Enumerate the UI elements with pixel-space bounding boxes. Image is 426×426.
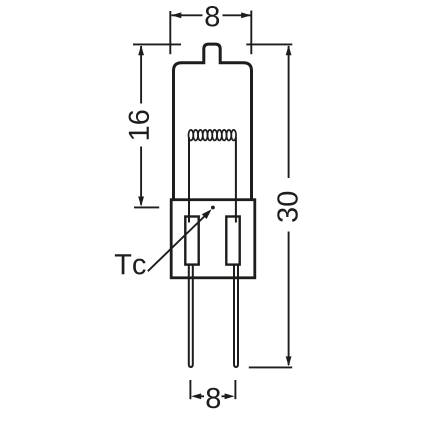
- dimension 30: line upper segment: [288, 46, 290, 178]
- lamp capsule outline: [174, 44, 252, 200]
- dimension 30: line lower segment: [288, 232, 290, 366]
- dimension top 8: extension line right: [250, 11, 252, 55]
- dimension top 8: label: [206, 6, 220, 27]
- dimension 16: label: [129, 110, 150, 139]
- dimension 16: arrowhead down: [138, 197, 144, 207]
- dimension top 8: arrowhead right: [241, 12, 251, 18]
- Tc measuring point dot: [211, 206, 215, 210]
- dimension bottom 8: line left stub: [200, 395, 204, 397]
- dimension 16: top reference tick: [133, 43, 181, 45]
- dimension top 8: arrowhead left: [171, 12, 181, 18]
- pin holder left: [185, 217, 198, 265]
- dimension bottom 8: extension line left: [189, 380, 191, 399]
- dimension bottom 8: label: [207, 388, 221, 409]
- dimension bottom 8: line right stub: [222, 395, 226, 397]
- dimension 16: arrowhead up: [138, 45, 144, 55]
- dimension 16: bottom reference tick: [134, 206, 159, 208]
- pin right: [234, 265, 238, 367]
- dimension 16: line lower segment: [140, 147, 142, 205]
- dimension bottom 8: arrowhead right: [225, 393, 235, 399]
- dimension 30: bottom reference tick: [249, 366, 292, 368]
- Tc leader arrowhead: [202, 209, 212, 219]
- Tc label: [115, 254, 146, 274]
- filament coil: [189, 130, 237, 141]
- dimension 30: arrowhead up: [286, 45, 292, 55]
- dimension 30: top reference tick: [246, 43, 292, 45]
- lamp base rectangle: [171, 200, 255, 278]
- pin holder right: [226, 217, 239, 265]
- dimension 30: label: [277, 192, 298, 222]
- dimension top 8: line right segment: [223, 14, 252, 16]
- filament lead wire right: [235, 138, 237, 223]
- pin left: [189, 265, 193, 367]
- dimension 16: line upper segment: [140, 46, 142, 104]
- Tc leader line: [148, 216, 205, 271]
- dimension 30: arrowhead down: [286, 356, 292, 366]
- dimension bottom 8: extension line right: [234, 380, 236, 399]
- dimension top 8: extension line left: [169, 11, 171, 54]
- dimension top 8: line left segment: [171, 14, 202, 16]
- filament lead wire left: [188, 138, 190, 223]
- dimension bottom 8: arrowhead left: [191, 393, 201, 399]
